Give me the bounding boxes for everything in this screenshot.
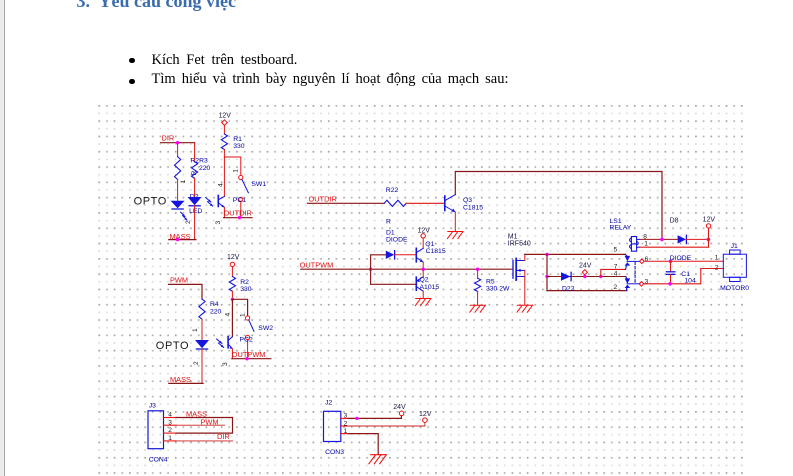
net label MASS (PWM block) (169, 375, 203, 384)
svg-text:220: 220 (210, 309, 222, 316)
svg-text:3: 3 (222, 362, 229, 366)
power port 12V (relay) (703, 217, 716, 228)
wire to relay pin 7 (601, 269, 626, 276)
svg-text:DIODE: DIODE (670, 255, 692, 262)
svg-text:IRF540: IRF540 (508, 240, 531, 247)
transistor Q3 C1815 (445, 195, 483, 212)
svg-text:R22: R22 (386, 187, 399, 194)
relay actuator dashed link (634, 262, 636, 283)
wire DIR to R3 (194, 143, 196, 162)
relay LS1 coil (610, 218, 649, 251)
svg-text:7: 7 (614, 264, 618, 271)
svg-text:2: 2 (168, 427, 172, 434)
resistor R1 330 (221, 134, 244, 150)
capacitor C1 104 (666, 261, 696, 284)
wire 12V down to coil pin 1 (640, 228, 709, 247)
svg-text:J1: J1 (731, 243, 738, 250)
svg-text:R2R3: R2R3 (190, 158, 208, 165)
svg-text:2: 2 (193, 361, 200, 365)
wire J2 pin3 to 24V (348, 416, 401, 419)
wire coil pin 8 to D8 (640, 238, 678, 240)
net label PWM (J3) (176, 418, 225, 427)
svg-text:DIR: DIR (162, 134, 175, 143)
opto PC1 phototransistor (215, 183, 246, 225)
net label OUTPWM (drive line) (300, 260, 513, 269)
svg-text:1: 1 (344, 428, 348, 435)
wire SW1 bottom to OUTDIR (240, 201, 242, 217)
svg-text:RELAY: RELAY (610, 225, 632, 232)
wire DIR to R2 (177, 143, 179, 157)
wire PC1 emitter to OUTDIR (223, 207, 225, 217)
resistor R3 220 (192, 162, 198, 179)
svg-text:DIR: DIR (217, 432, 230, 441)
svg-text:Q2: Q2 (420, 277, 429, 284)
svg-text:2: 2 (614, 284, 618, 291)
transistor Q2 A1015 (416, 277, 439, 292)
svg-text:24V: 24V (393, 404, 406, 411)
wire Q1 emitter to output node (422, 262, 424, 269)
ground (Q2) (415, 299, 431, 306)
wire Q3 collector to relay coil (455, 172, 662, 240)
wire 12V to R1 (223, 125, 225, 134)
wire R2 to junction (231, 291, 233, 299)
svg-text:330: 330 (233, 143, 245, 150)
wire drain to relay pin 5 (525, 253, 626, 255)
diode D22 (561, 272, 575, 292)
svg-text:C1815: C1815 (426, 248, 446, 255)
wire R1 bottom to PC1 collector (223, 150, 225, 197)
wire J2 pin2 to 12V (348, 423, 425, 427)
svg-text:1: 1 (192, 328, 199, 332)
opto PC1 coupling arrows (206, 198, 213, 206)
junction J2 pin3 (355, 417, 358, 420)
opto PC1 LED D2 (188, 193, 202, 205)
net label OUTDIR (at PC1) (224, 208, 253, 217)
wire D1 to Q1 base (395, 254, 417, 256)
switch SW2 (239, 313, 273, 340)
svg-text:4: 4 (614, 271, 618, 278)
wire M1 drain up (524, 254, 526, 260)
wire down to Q2 base (371, 269, 417, 284)
junction D22 line (545, 275, 548, 278)
ground (M1) (517, 305, 533, 312)
svg-text:SW1: SW1 (251, 181, 266, 188)
ground (Q3) (448, 232, 464, 239)
wire to R5 (477, 269, 479, 278)
svg-text:SW2: SW2 (258, 325, 273, 332)
junction MASS (176, 238, 179, 241)
connector J1 MOTOR0 (715, 243, 750, 292)
svg-text:12V: 12V (419, 411, 432, 418)
junction OUTPWM at PC2 (245, 357, 248, 360)
wire up to D1 (371, 255, 386, 269)
svg-text:R2: R2 (240, 279, 249, 286)
svg-text:1: 1 (239, 313, 246, 317)
relay pin 6 diamond (640, 256, 649, 263)
svg-text:PC2: PC2 (240, 336, 253, 343)
wire Q3 emitter to ground (454, 212, 456, 232)
svg-text:6: 6 (645, 256, 649, 263)
wire relay pin 6 to motor (644, 260, 723, 262)
wire R2 to LED indicator (177, 180, 179, 201)
svg-text:DIODE: DIODE (386, 237, 408, 244)
svg-text:1: 1 (715, 254, 719, 261)
junction drain node (545, 253, 548, 256)
svg-text:A1015: A1015 (420, 284, 440, 291)
wire R4 to PC2 LED (201, 319, 203, 340)
opto PC2 LED (195, 340, 209, 349)
net label OUTDIR (drive line) (307, 194, 384, 203)
svg-text:12V: 12V (703, 217, 716, 224)
schematic grid dots (98, 105, 748, 476)
relay contact pin numbers (614, 247, 618, 292)
svg-text:OUTDIR: OUTDIR (224, 208, 252, 217)
svg-text:1: 1 (644, 240, 648, 247)
net label MASS (DIR block) (169, 232, 196, 241)
svg-text:2: 2 (185, 220, 192, 224)
transistor Q1 C1815 (416, 241, 446, 262)
svg-text:OPTO: OPTO (156, 340, 189, 352)
svg-text:J3: J3 (149, 402, 156, 409)
svg-text:CON3: CON3 (325, 449, 344, 456)
svg-text:1: 1 (180, 180, 187, 184)
net label DIR (J3) (176, 432, 233, 441)
net label MASS (J3) (176, 409, 232, 433)
power port 24V (diamond) (579, 262, 592, 276)
connector J2 CON3 (324, 400, 349, 457)
opto PC2 phototransistor (222, 313, 253, 367)
svg-text:Q3: Q3 (463, 197, 472, 204)
wire Q2 emitter to output node (422, 269, 424, 277)
junction OUTPWM node (369, 268, 372, 271)
switch SW1 (233, 169, 267, 202)
wire down left rail (546, 254, 548, 290)
bullet 2 (129, 79, 135, 85)
wire branch to SW1 (224, 157, 240, 175)
resistor R22 (384, 187, 406, 206)
wire rail to relay pin 2 (547, 290, 627, 292)
power port 12V (Q1 collector) (418, 228, 431, 238)
power port 12V (above R2, circle) (227, 254, 240, 267)
power port 24V (J2) (393, 404, 406, 416)
left page-margin strip (0, 0, 5, 476)
connector J3 CON4 (148, 402, 176, 463)
svg-text:R4: R4 (210, 301, 219, 308)
svg-text:D22: D22 (562, 286, 575, 293)
svg-text:2: 2 (715, 264, 719, 271)
heading: 3. Yeu cau cong viec (77, 0, 236, 12)
wire R22 to Q3 base (406, 202, 445, 204)
svg-text:C1815: C1815 (463, 204, 483, 211)
ground (R5) (470, 305, 486, 312)
diode D8 (670, 217, 687, 243)
svg-text:Q1: Q1 (425, 241, 434, 248)
wire D8 to 12V rail (686, 238, 708, 240)
svg-text:330 2W: 330 2W (486, 285, 510, 292)
wire relay pin 3 to motor pin 2 (644, 269, 724, 284)
svg-text:R5: R5 (486, 278, 495, 285)
svg-text:4: 4 (225, 313, 232, 317)
net label DIR (161, 134, 195, 143)
svg-text:1: 1 (168, 435, 172, 442)
junction coil pin 8 (660, 238, 664, 242)
junction 24V (583, 275, 586, 278)
resistor R5 330 2W (475, 278, 511, 292)
resistor R4 220 (199, 299, 222, 319)
svg-text:PWM: PWM (170, 276, 188, 285)
junction C1 top (669, 260, 673, 264)
wire R3 to opto LED (194, 178, 196, 197)
bullet 1 (129, 58, 135, 64)
svg-text:CON4: CON4 (149, 457, 168, 464)
wire R5 to ground (477, 291, 479, 305)
svg-text:24V: 24V (579, 262, 592, 269)
svg-text:LED: LED (189, 208, 202, 215)
wire J2 pin1 to ground (348, 434, 378, 455)
svg-text:12V: 12V (219, 113, 232, 120)
svg-text:R: R (386, 218, 391, 225)
junction OUTDIR (238, 216, 241, 219)
junction R5 node (476, 268, 479, 271)
svg-text:1: 1 (233, 169, 240, 173)
opto PC2 coupling arrows (217, 339, 224, 347)
svg-text:PC1: PC1 (233, 197, 246, 204)
svg-text:OUTDIR: OUTDIR (309, 194, 337, 203)
LED indicator diode (171, 201, 187, 220)
net label OUTPWM (at PC2) (232, 350, 271, 359)
wire 12V to R2(330) (231, 267, 233, 277)
wire Q2 collector to ground (422, 291, 424, 298)
svg-text:OUTPWM: OUTPWM (300, 260, 334, 269)
power port 12V (top, diamond) (219, 113, 232, 126)
wire PC2 LED cathode to MASS (201, 349, 203, 383)
svg-text:12V: 12V (227, 254, 240, 261)
svg-text:4: 4 (168, 412, 172, 419)
svg-text:3: 3 (645, 279, 649, 286)
junction R2 node (231, 298, 234, 301)
svg-text:D8: D8 (670, 217, 679, 224)
wire 12V to Q1 collector (422, 238, 424, 248)
svg-text:330: 330 (240, 286, 252, 293)
wire M1 source to ground (524, 270, 526, 305)
power port 12V (J2) (419, 411, 432, 423)
svg-text:MASS: MASS (170, 375, 191, 384)
wire opto LED cathode down (194, 206, 196, 240)
ground (J2) (369, 455, 387, 464)
wire PC2 emitter to OUTPWM (231, 349, 233, 359)
junction D8 cathode (707, 238, 711, 242)
svg-text:3: 3 (168, 419, 172, 426)
junction pin7 branch (599, 275, 602, 278)
relay LS1 contact B (625, 277, 640, 291)
svg-text:3: 3 (344, 413, 348, 420)
wire SW2 bottom to OUTPWM (247, 340, 249, 359)
junction output node (422, 268, 425, 271)
svg-text:2: 2 (344, 420, 348, 427)
svg-text:OPTO: OPTO (134, 196, 167, 208)
svg-text:4: 4 (218, 183, 225, 187)
svg-text:MOTOR0: MOTOR0 (720, 285, 749, 292)
junction on DIR wire (176, 141, 179, 144)
relay LS1 contact A (625, 254, 640, 269)
relay pin 3 diamond (639, 279, 649, 287)
svg-text:220: 220 (199, 165, 211, 172)
diode D1 DIODE (386, 230, 408, 259)
resistor R2 330 (229, 277, 251, 293)
svg-text:5: 5 (614, 247, 618, 254)
net label PWM (169, 276, 203, 300)
wire D22 line (547, 276, 626, 278)
svg-text:D1: D1 (386, 230, 395, 237)
wire junction down to PC2 collector (231, 299, 233, 336)
junction C1 bottom (668, 282, 672, 286)
svg-text:J2: J2 (325, 400, 332, 407)
svg-text:3: 3 (215, 221, 222, 225)
svg-text:OUTPWM: OUTPWM (232, 350, 266, 359)
MOSFET M1 IRF540 (508, 234, 531, 280)
resistor R2 220 (175, 157, 211, 180)
wire branch to SW2 (232, 299, 247, 316)
